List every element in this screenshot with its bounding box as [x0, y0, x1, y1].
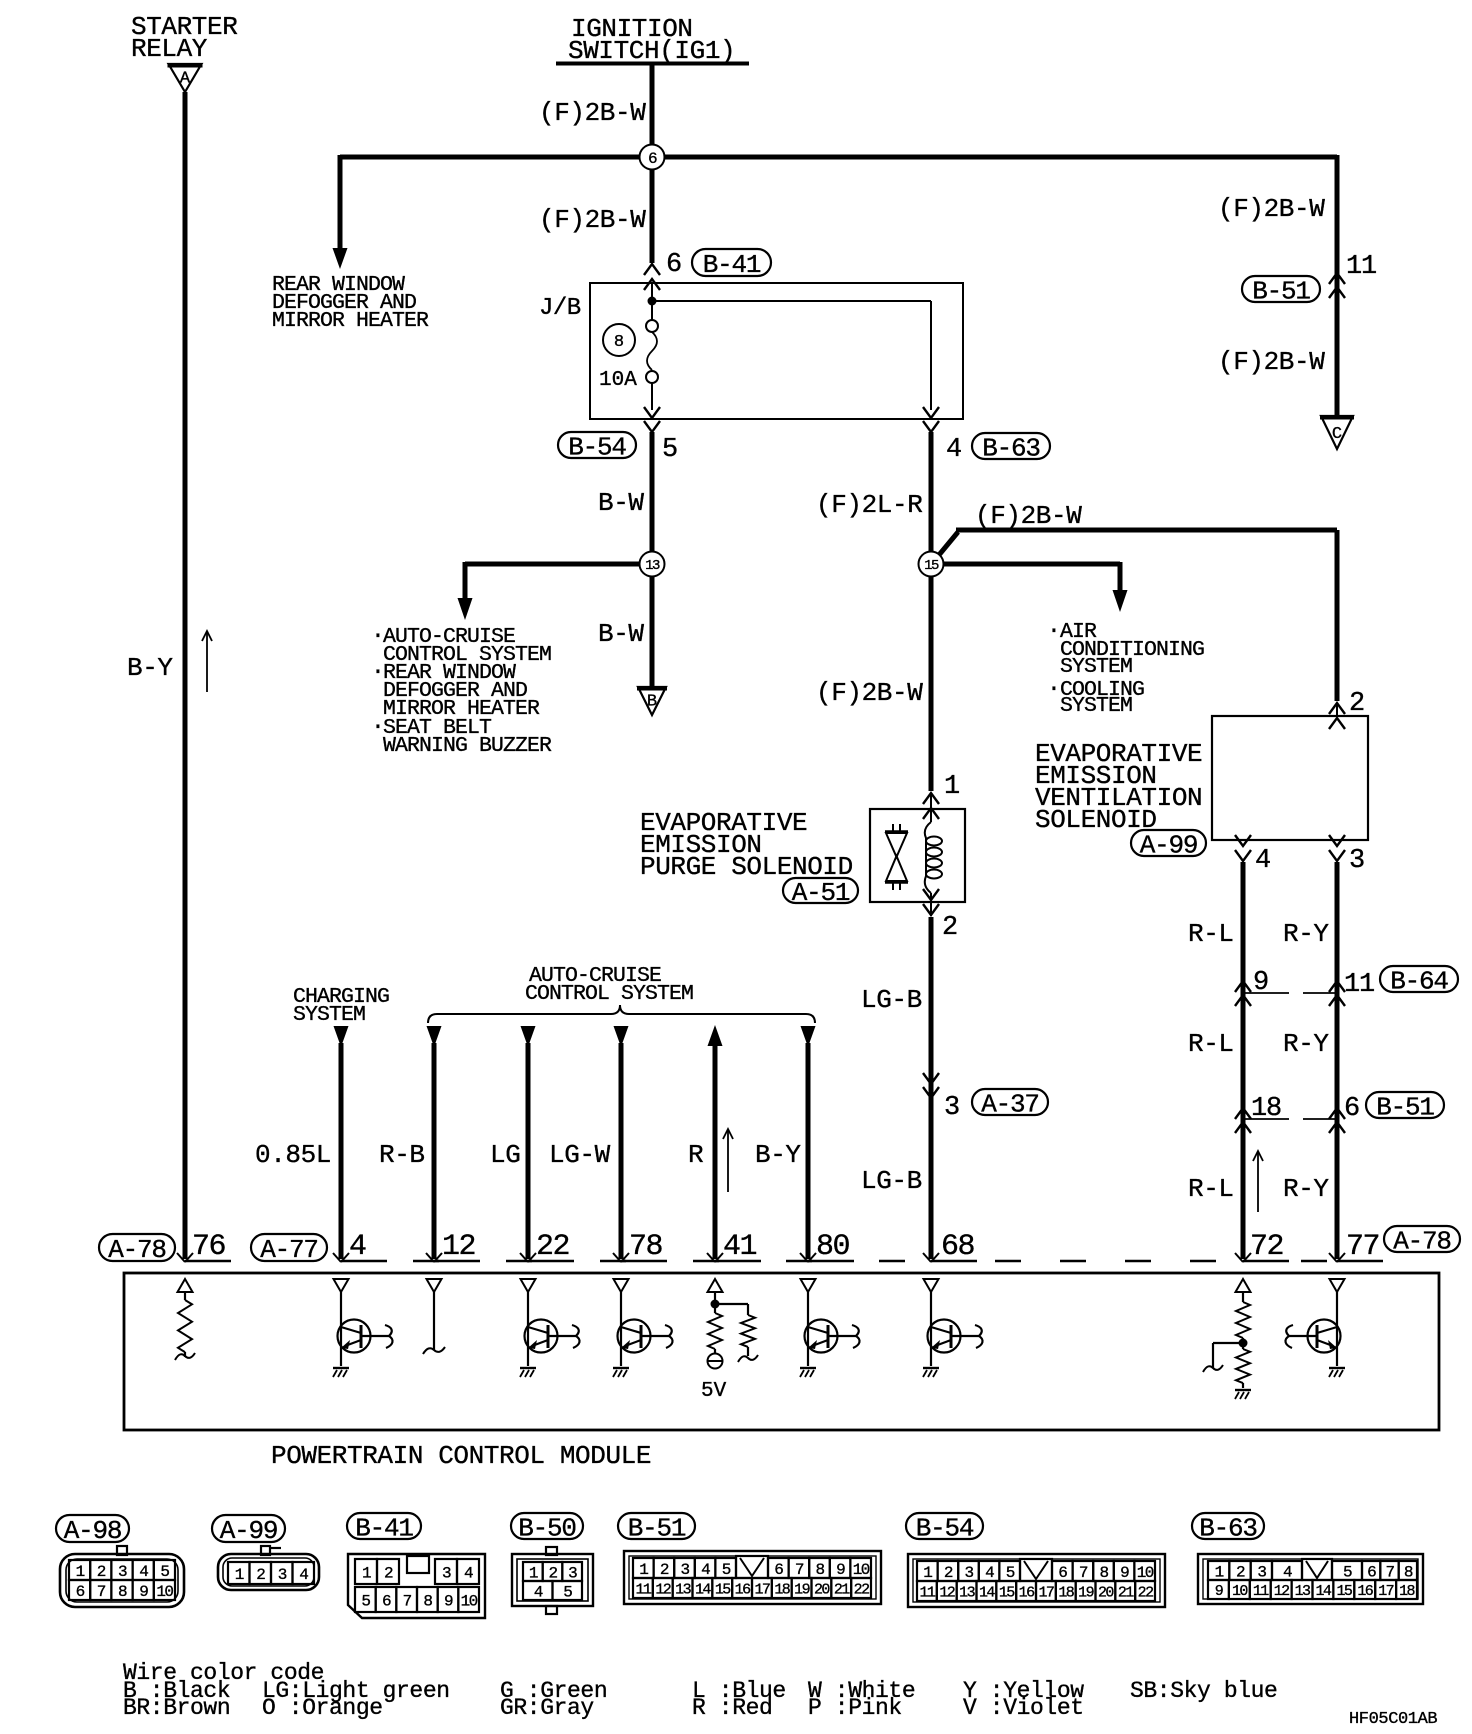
chevrons J/B left exit [644, 407, 660, 432]
dashed connector boundary at PCM [185, 1260, 1383, 1262]
label (F)2B-W near node 15 [975, 501, 1082, 531]
connector triangle C [1320, 416, 1354, 449]
svg-text:11: 11 [1253, 1583, 1269, 1600]
svg-text:LG: LG [490, 1140, 520, 1170]
PCM pin numbers [192, 1230, 850, 1264]
transistor driver pin 77 (mirrored) [1285, 1292, 1345, 1377]
oval B-63 [972, 433, 1050, 463]
transistor driver pin 68 [923, 1292, 983, 1377]
svg-text:22: 22 [854, 1581, 869, 1598]
wire from external system to PCM pin 78 [613, 1026, 629, 1262]
svg-text:4: 4 [464, 1564, 473, 1582]
label 11 [1346, 252, 1376, 282]
svg-text:9: 9 [836, 1561, 845, 1579]
svg-text:9: 9 [1215, 1583, 1223, 1600]
brace over auto-cruise wires [428, 1005, 815, 1023]
svg-text:9: 9 [139, 1583, 148, 1601]
label pin 4 vent [1255, 846, 1271, 876]
PCM internal chevron pin 41 [708, 1279, 723, 1292]
labels 72 / 77 [1250, 1230, 1379, 1264]
svg-text:(F)2L-R: (F)2L-R [816, 490, 922, 520]
label LG-B lower [861, 1166, 922, 1196]
svg-text:A-37: A-37 [981, 1089, 1039, 1119]
svg-text:B-Y: B-Y [127, 653, 173, 683]
svg-text:C: C [1332, 425, 1342, 444]
svg-text:(F)2B-W: (F)2B-W [816, 678, 923, 708]
wire from external system to PCM pin 12 [426, 1026, 442, 1262]
svg-text:13: 13 [645, 558, 660, 574]
svg-text:A-78: A-78 [1393, 1226, 1451, 1256]
svg-text:A: A [180, 69, 191, 88]
svg-text:1: 1 [76, 1563, 85, 1581]
svg-text:6: 6 [382, 1592, 391, 1610]
wire node 6 down to J/B [650, 157, 655, 263]
svg-text:R-Y: R-Y [1283, 1029, 1329, 1059]
svg-text:6: 6 [1344, 1094, 1360, 1124]
vent solenoid box A-99 [1212, 716, 1368, 840]
svg-text:20: 20 [814, 1581, 830, 1598]
wire J/B to node 13 [650, 432, 655, 564]
svg-text:17: 17 [755, 1581, 770, 1598]
svg-text:8: 8 [423, 1592, 432, 1610]
5V reference network pin 41 [707, 1292, 758, 1369]
label 10A [599, 369, 637, 392]
svg-text:4: 4 [299, 1566, 308, 1584]
drawing number [1349, 1710, 1437, 1729]
svg-text:10: 10 [461, 1592, 478, 1610]
label B-W [598, 488, 644, 518]
connector B-41 body [348, 1554, 485, 1618]
direction arrow up (R wire pin 41) [723, 1129, 733, 1192]
connector A-99 body [218, 1546, 319, 1590]
svg-text:MIRROR HEATER: MIRROR HEATER [272, 309, 429, 333]
svg-text:5: 5 [662, 435, 678, 465]
svg-text:3: 3 [964, 1564, 973, 1582]
svg-text:3: 3 [680, 1561, 689, 1579]
svg-text:11: 11 [1346, 252, 1376, 282]
oval A-37 [972, 1089, 1048, 1119]
svg-text:76: 76 [192, 1230, 226, 1264]
svg-text:12: 12 [655, 1581, 670, 1598]
PCM internal chevron pin 78 [614, 1279, 629, 1292]
svg-text:3: 3 [1349, 846, 1365, 876]
transistor driver pin 22 [520, 1292, 580, 1377]
connector triangle B [637, 687, 667, 715]
PCM pull resistor at pin 76 [175, 1292, 195, 1360]
svg-text:18: 18 [1399, 1583, 1415, 1600]
node 13 junction [640, 552, 665, 577]
svg-text:5: 5 [361, 1592, 370, 1610]
PCM internal chevron pin 4 [334, 1279, 349, 1292]
svg-text:4: 4 [534, 1583, 543, 1601]
node: wire foot at A-78 pin 76 [177, 1253, 185, 1262]
wire from external system to PCM pin 22 [520, 1026, 536, 1262]
svg-text:72: 72 [1250, 1230, 1283, 1264]
wire R-L vent solenoid to PCM pin 72 [1241, 862, 1246, 1259]
svg-text:8: 8 [1099, 1564, 1108, 1582]
svg-text:77: 77 [1346, 1230, 1379, 1264]
oval B-41 [692, 249, 771, 280]
svg-text:6: 6 [774, 1561, 783, 1579]
ignition switch label [568, 14, 735, 66]
label (F)2B-W right top [1218, 194, 1325, 224]
svg-text:B-41: B-41 [355, 1513, 413, 1543]
svg-text:·: · [1047, 618, 1061, 644]
svg-text:18: 18 [1058, 1584, 1074, 1601]
svg-text:16: 16 [1019, 1584, 1035, 1601]
svg-text:R-B: R-B [379, 1140, 425, 1170]
label (F)2L-R [816, 490, 922, 520]
label 5V [701, 1380, 727, 1403]
fuse number circle 8 [603, 324, 635, 356]
label pin 2 vent [1349, 689, 1365, 719]
chevrons pin 2 vent solenoid [1329, 703, 1345, 729]
connector B-50 label oval [511, 1513, 583, 1543]
labels R-L / R-Y row1 [1188, 919, 1329, 949]
powertrain control module label [271, 1441, 651, 1471]
svg-text:20: 20 [1098, 1584, 1114, 1601]
PCM internal chevron pin 22 [521, 1279, 536, 1292]
direction arrow up (R-L wire) [1253, 1151, 1263, 1212]
labels R-L / R-Y row2 [1188, 1029, 1329, 1059]
svg-text:5V: 5V [701, 1380, 727, 1403]
label B-W lower [598, 619, 644, 649]
J/B box [590, 283, 963, 419]
branch from node 15 to AC systems [941, 562, 1128, 612]
svg-text:SYSTEM: SYSTEM [1060, 694, 1132, 718]
oval A-78 right [1384, 1226, 1460, 1256]
connector B-63 body [1198, 1554, 1423, 1604]
PCM internal chevron pin 77 [1330, 1279, 1345, 1292]
oval B-54 [558, 432, 636, 462]
svg-text:3: 3 [118, 1563, 127, 1581]
connector B-54 body [908, 1554, 1165, 1607]
label pin 2 [942, 913, 958, 943]
purge solenoid valve symbol [885, 824, 908, 890]
systems list [371, 623, 552, 758]
svg-text:78: 78 [629, 1230, 663, 1264]
svg-text:9: 9 [1253, 968, 1269, 998]
chevrons pin 4 vent solenoid [1235, 835, 1251, 861]
svg-text:V :Violet: V :Violet [963, 1695, 1084, 1721]
AC systems list [1047, 618, 1204, 718]
svg-text:4: 4 [1283, 1563, 1292, 1581]
svg-text:12: 12 [1274, 1583, 1289, 1600]
connector A-98 body [60, 1546, 184, 1607]
svg-text:2: 2 [944, 1564, 953, 1582]
svg-text:6: 6 [1367, 1563, 1376, 1581]
svg-text:CONTROL SYSTEM: CONTROL SYSTEM [525, 982, 693, 1006]
wire B-Y starter relay to PCM pin 76 [183, 92, 188, 1259]
svg-text:22: 22 [536, 1230, 569, 1264]
svg-text:SYSTEM: SYSTEM [293, 1003, 365, 1027]
starter relay label [131, 12, 237, 64]
svg-text:17: 17 [1378, 1583, 1393, 1600]
svg-text:3: 3 [944, 1093, 960, 1123]
svg-text:R :Red: R :Red [692, 1695, 772, 1721]
label 5 [662, 435, 678, 465]
svg-text:P :Pink: P :Pink [808, 1695, 902, 1721]
connector B-41 label oval [347, 1513, 421, 1543]
svg-text:B-51: B-51 [1376, 1092, 1434, 1122]
labels R-L / R-Y row3 [1188, 1174, 1329, 1204]
connector triangle A [168, 64, 203, 92]
svg-text:7: 7 [795, 1561, 804, 1579]
wire color labels [255, 1140, 801, 1170]
oval A-78 left [99, 1234, 175, 1265]
svg-text:8: 8 [614, 333, 624, 352]
svg-text:16: 16 [735, 1581, 751, 1598]
svg-text:3: 3 [568, 1564, 577, 1582]
svg-text:10: 10 [853, 1561, 870, 1579]
label 6 at J/B entry [666, 250, 682, 280]
svg-text:3: 3 [1257, 1563, 1266, 1581]
svg-text:B-W: B-W [598, 619, 644, 649]
svg-text:(F)2B-W: (F)2B-W [539, 98, 646, 128]
svg-text:0.85L: 0.85L [255, 1140, 331, 1170]
svg-text:15: 15 [924, 558, 939, 574]
svg-text:7: 7 [403, 1592, 412, 1610]
wire color code legend [123, 1660, 1277, 1721]
oval A-51 [783, 878, 858, 908]
svg-text:1: 1 [923, 1564, 932, 1582]
svg-text:10: 10 [1232, 1583, 1248, 1600]
svg-text:A-99: A-99 [220, 1516, 278, 1546]
connector B-51 pass-through (pins 18 / 6) [1235, 1108, 1345, 1133]
svg-text:B-51: B-51 [628, 1513, 686, 1543]
label 3 [944, 1093, 960, 1123]
oval A-99 [1131, 830, 1206, 860]
svg-text:R-L: R-L [1188, 1174, 1234, 1204]
svg-text:2: 2 [97, 1563, 106, 1581]
wire node 13 to triangle B [650, 564, 655, 686]
connector B-51 label oval [618, 1513, 695, 1543]
svg-text:16: 16 [1357, 1583, 1373, 1600]
powertrain control module box [124, 1273, 1439, 1430]
PCM internal chevron pin 12 [427, 1279, 442, 1292]
svg-text:(F)2B-W: (F)2B-W [1218, 347, 1325, 377]
svg-text:12: 12 [442, 1230, 475, 1264]
label (F)2B-W [539, 98, 646, 128]
svg-text:41: 41 [723, 1230, 757, 1264]
divider resistors pin 72 [1203, 1292, 1251, 1399]
svg-text:(F)2B-W: (F)2B-W [539, 205, 646, 235]
svg-text:B-64: B-64 [1390, 966, 1448, 996]
svg-text:14: 14 [979, 1584, 995, 1601]
label pin 68 [941, 1230, 975, 1264]
chevrons pin 2 purge solenoid [923, 889, 939, 916]
svg-text:19: 19 [1078, 1584, 1093, 1601]
svg-text:RELAY: RELAY [131, 34, 208, 64]
label B-Y [127, 653, 173, 683]
svg-text:6: 6 [76, 1583, 85, 1601]
svg-text:2: 2 [942, 913, 958, 943]
svg-text:B-W: B-W [598, 488, 644, 518]
svg-text:1: 1 [529, 1564, 538, 1582]
svg-text:9: 9 [1120, 1564, 1129, 1582]
wire J/B right exit to node 15 [929, 432, 934, 564]
label (F)2B-W right lower [1218, 347, 1325, 377]
svg-text:14: 14 [1316, 1583, 1332, 1600]
oval B-64 [1380, 966, 1458, 996]
svg-text:10: 10 [156, 1583, 173, 1601]
svg-text:1: 1 [362, 1564, 371, 1582]
wire from external system to PCM pin 41 [707, 1025, 723, 1262]
svg-text:4: 4 [139, 1563, 148, 1581]
svg-text:8: 8 [118, 1583, 127, 1601]
svg-text:5: 5 [1006, 1564, 1015, 1582]
svg-text:SB:Sky blue: SB:Sky blue [1130, 1678, 1277, 1704]
svg-text:7: 7 [1385, 1563, 1394, 1581]
connector A-37 pass-through chevrons [923, 1073, 939, 1098]
wire purge solenoid to PCM pin 68 [929, 917, 934, 1259]
connector B-50 body [512, 1547, 593, 1614]
svg-text:2: 2 [660, 1561, 669, 1579]
connector A-99 label oval [212, 1515, 285, 1546]
svg-text:·: · [1047, 676, 1061, 702]
purge solenoid coil [925, 822, 942, 893]
label LG-B [861, 985, 922, 1015]
svg-text:13: 13 [675, 1581, 691, 1598]
svg-text:4: 4 [701, 1561, 710, 1579]
svg-text:22: 22 [1138, 1584, 1153, 1601]
purge solenoid name [640, 808, 853, 882]
svg-text:4: 4 [1255, 846, 1271, 876]
branch wire to rear window defogger [333, 155, 348, 269]
PCM internal chevron pin 80 [801, 1279, 816, 1292]
wire ignition to node 6 [650, 63, 655, 157]
PCM internal chevron pin 72 [1236, 1279, 1251, 1292]
svg-text:A-51: A-51 [792, 878, 850, 908]
svg-text:15: 15 [715, 1581, 731, 1598]
svg-text:B-63: B-63 [982, 433, 1040, 463]
transistor driver pin 80 [800, 1292, 860, 1377]
svg-text:A-77: A-77 [260, 1235, 318, 1265]
svg-text:13: 13 [1295, 1583, 1311, 1600]
connector B-63 label oval [1192, 1513, 1264, 1543]
charging system label [293, 985, 389, 1027]
chevrons pin 1 purge solenoid [923, 793, 939, 822]
svg-text:4: 4 [985, 1564, 994, 1582]
svg-text:10A: 10A [599, 369, 637, 392]
transistor driver pin 78 [613, 1292, 673, 1377]
svg-text:7: 7 [97, 1583, 106, 1601]
main horizontal bus from node 6 [340, 155, 1337, 160]
svg-text:11: 11 [1344, 970, 1374, 1000]
connector A-98 label oval [56, 1515, 129, 1546]
svg-text:POWERTRAIN CONTROL MODULE: POWERTRAIN CONTROL MODULE [271, 1441, 651, 1471]
svg-text:8: 8 [1404, 1563, 1413, 1581]
node 6 junction [640, 145, 665, 170]
svg-text:1: 1 [1215, 1563, 1224, 1581]
wire node 15 down to purge solenoid [929, 564, 934, 791]
svg-text:11: 11 [920, 1584, 936, 1601]
svg-text:10: 10 [1137, 1564, 1154, 1582]
PCM internal chevron pin 68 [924, 1279, 939, 1292]
oval B-51 [1242, 276, 1320, 306]
rear window defogger label [272, 273, 429, 333]
fuse 8 10A [646, 320, 658, 410]
svg-text:6: 6 [648, 150, 657, 168]
wire from external system to PCM pin 4 [333, 1026, 349, 1262]
connector B-64 pass-through (pins 9 / 11) [1235, 981, 1345, 1006]
svg-text:21: 21 [834, 1581, 850, 1598]
svg-text:12: 12 [939, 1584, 954, 1601]
svg-text:B-63: B-63 [1199, 1513, 1257, 1543]
svg-text:R-Y: R-Y [1283, 1174, 1329, 1204]
svg-text:BR:Brown: BR:Brown [123, 1695, 230, 1721]
diagonal + bus to vent solenoid [934, 530, 1337, 701]
svg-text:1: 1 [639, 1561, 648, 1579]
vent solenoid name [1035, 739, 1202, 835]
svg-text:LG-B: LG-B [861, 985, 922, 1015]
svg-text:1: 1 [944, 772, 960, 802]
branch bus from node 13 [465, 562, 652, 567]
PCM internal chevron pin 76 [178, 1279, 193, 1292]
purge solenoid box A-51 [870, 809, 965, 902]
svg-text:B-51: B-51 [1252, 276, 1310, 306]
svg-text:2: 2 [384, 1564, 393, 1582]
svg-text:8: 8 [815, 1561, 824, 1579]
chevrons pin 3 vent solenoid [1329, 835, 1345, 861]
svg-text:7: 7 [1079, 1564, 1088, 1582]
svg-text:LG-W: LG-W [549, 1140, 611, 1170]
wire from external system to PCM pin 80 [800, 1026, 816, 1262]
auto-cruise control system label [525, 964, 693, 1006]
svg-text:18: 18 [774, 1581, 790, 1598]
svg-text:2: 2 [1236, 1563, 1245, 1581]
svg-text:3: 3 [442, 1564, 451, 1582]
svg-text:B-Y: B-Y [755, 1140, 801, 1170]
label (F)2B-W second [539, 205, 646, 235]
svg-text:R-Y: R-Y [1283, 919, 1329, 949]
connector B-54 label oval [906, 1513, 983, 1543]
svg-text:R-L: R-L [1188, 1029, 1234, 1059]
label (F)2B-W above purge [816, 678, 923, 708]
label pin 1 [944, 772, 960, 802]
svg-text:14: 14 [695, 1581, 711, 1598]
labels 9 and 11 B-64 [1253, 968, 1374, 1000]
svg-text:15: 15 [1336, 1583, 1352, 1600]
svg-text:B-50: B-50 [518, 1513, 576, 1543]
J/B internal wire and junction [651, 283, 653, 320]
svg-text:B-41: B-41 [703, 250, 761, 280]
svg-text:5: 5 [563, 1583, 572, 1601]
svg-text:2: 2 [548, 1564, 557, 1582]
svg-text:18: 18 [1251, 1094, 1281, 1124]
svg-text:15: 15 [999, 1584, 1015, 1601]
label 4 [946, 435, 962, 465]
svg-text:11: 11 [636, 1581, 652, 1598]
input line pin 12 [423, 1292, 445, 1354]
svg-text:B-54: B-54 [568, 432, 626, 462]
svg-text:(F)2B-W: (F)2B-W [1218, 194, 1325, 224]
svg-text:6: 6 [1058, 1564, 1067, 1582]
svg-text:68: 68 [941, 1230, 975, 1264]
oval B-51 lower [1366, 1092, 1444, 1122]
svg-text:GR:Gray: GR:Gray [500, 1695, 594, 1721]
svg-text:B-54: B-54 [916, 1513, 974, 1543]
svg-text:WARNING BUZZER: WARNING BUZZER [383, 734, 552, 758]
connector B-51 pin 11 pass-through chevrons [1329, 273, 1345, 298]
wire R-Y vent solenoid to PCM pin 77 [1335, 862, 1340, 1259]
node 15 junction [919, 552, 944, 577]
svg-text:HF05C01AB: HF05C01AB [1349, 1710, 1437, 1729]
wire right branch down to triangle C [1335, 155, 1340, 417]
svg-text:5: 5 [722, 1561, 731, 1579]
svg-text:LG-B: LG-B [861, 1166, 922, 1196]
svg-text:13: 13 [959, 1584, 975, 1601]
